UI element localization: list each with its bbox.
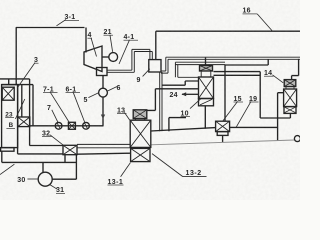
tower 13 body <box>130 120 151 147</box>
tower 13 neck <box>135 119 144 121</box>
wire turbine down pipe <box>102 76 104 89</box>
wire line y88.8 to tower 12 <box>155 88 198 90</box>
wire riser to pipe A <box>267 59 269 65</box>
wire 16 line vertical into box 9 <box>155 31 157 59</box>
circle 22 <box>294 136 300 142</box>
wire condensate down pipe <box>102 97 104 126</box>
label line 30 <box>27 178 38 180</box>
heat exchanger 32 <box>63 145 77 154</box>
wire tower 14 side pipe <box>278 93 284 141</box>
tower 14 body <box>284 89 297 107</box>
wire exhaust double pipe riser <box>132 49 134 72</box>
wire tower 12 down pipe <box>204 106 206 129</box>
wire B2 pipe <box>214 74 261 76</box>
wire top loop left vertical <box>15 27 17 84</box>
heat exchanger 9 <box>149 60 161 72</box>
vessel 3 top line extension <box>2 84 33 86</box>
pointer for label 1 at edge <box>0 164 14 174</box>
pointer 13-1 <box>121 163 131 177</box>
heat exchanger 15 base <box>217 132 228 136</box>
circle 6 <box>99 88 108 97</box>
tower 14 neck <box>286 87 294 89</box>
pointer 3-1 <box>57 20 67 26</box>
wire generator shaft <box>102 56 109 58</box>
pointer 21 <box>110 35 113 52</box>
pointer 10 <box>190 99 201 109</box>
vessel 3 inner packing <box>2 87 14 100</box>
tower 13 lower section <box>131 148 150 161</box>
pointer 6 <box>107 87 117 92</box>
wire box 15 top riser <box>224 64 226 121</box>
wire pipe A long double line <box>166 57 300 59</box>
turbine 4 exhaust hood <box>97 68 108 76</box>
wire y127 line <box>230 126 278 128</box>
wire exhaust double pipe top run <box>132 49 152 51</box>
pointer 16 <box>257 14 272 31</box>
wire L2 line right of box 32 <box>77 153 131 154</box>
pump 31 <box>38 172 52 186</box>
wire vessel top inlet stub <box>8 79 10 85</box>
turbine 4 <box>84 46 102 72</box>
pointer 15 <box>223 101 238 121</box>
wire B1 pipe tower 12 to tower 14 bottom <box>214 72 291 118</box>
wire line to tower 13 bottom <box>64 155 66 163</box>
tower 14 cap <box>284 80 296 87</box>
pointer 5 <box>88 93 98 98</box>
wire left edge drop <box>1 151 3 162</box>
wire D2 branch down <box>175 62 198 77</box>
valve 7-1 <box>68 122 75 129</box>
pointer 3 <box>17 63 35 88</box>
wire L2 line left of box 32 <box>18 153 63 155</box>
pointer 19 <box>236 101 251 127</box>
wire tower 14 top pipe <box>292 59 299 80</box>
wire 16 long top line <box>156 30 300 32</box>
wire top loop horizontal 3-1 <box>16 27 85 29</box>
pointer 7-1 <box>50 92 69 123</box>
arrow 24 <box>182 93 199 95</box>
tower 12 neck <box>201 71 211 77</box>
valve 6-1 <box>83 122 90 129</box>
wire L1 elbow riser <box>29 79 31 146</box>
wire pipe into box 8 top <box>21 85 23 117</box>
generator 21 <box>109 53 118 62</box>
tower 12 body <box>199 77 214 99</box>
pointer 32 <box>50 135 65 146</box>
wire box 15 bottom stub <box>222 135 224 142</box>
pointer 4-1 <box>119 40 130 64</box>
tower 12 bottom section <box>199 99 214 106</box>
pointer 14 <box>272 75 283 83</box>
wire feed line left edge <box>0 78 30 80</box>
wire stair pipe to tower 12 <box>162 81 199 85</box>
wire L1 line left of box 32 <box>30 145 63 147</box>
vessel 3 foot <box>1 148 14 152</box>
wire stub pipe y117 <box>169 118 186 132</box>
tower 12 cap <box>200 66 213 72</box>
wire L1 line right of box 32 <box>77 144 130 147</box>
wire bottom left long line <box>2 161 77 163</box>
wire vessel right wall to L2 <box>17 85 19 154</box>
pointer 9 <box>143 69 150 77</box>
pointer 4 <box>91 38 97 57</box>
wire drop to pump <box>42 162 44 172</box>
pointer 13-2 <box>152 154 207 177</box>
wire pipe A elbow double <box>161 57 168 73</box>
pointer 7 <box>52 110 58 123</box>
flow arrow on down pipe <box>101 115 105 120</box>
wire exhaust double pipe drop to box 9 <box>150 49 152 59</box>
wire D2 double pipe <box>175 62 225 64</box>
wire y66 line <box>225 64 268 66</box>
wire box 9 double down pipe <box>160 72 162 131</box>
wire line tower 13 to box 15 <box>151 128 216 131</box>
wire tower 12 top pipe <box>205 58 207 66</box>
pointer inside vessel <box>15 99 24 119</box>
heat exchanger 8 <box>18 117 30 127</box>
wire valve line <box>30 125 104 127</box>
heat exchanger 15 <box>216 121 230 131</box>
wire pipe to valve line <box>32 85 34 126</box>
wire pump outlet riser <box>52 155 76 180</box>
pointer 6-1 <box>73 92 85 122</box>
vessel 3 shell <box>2 85 18 148</box>
valve 7 <box>55 122 62 129</box>
pointer 31 <box>50 185 57 190</box>
wire exhaust double pipe horizontal <box>107 70 134 72</box>
pointer 13 <box>124 112 130 121</box>
wire long bottom right line <box>151 140 295 145</box>
tower 14 bottom section <box>284 107 296 114</box>
wire steam inlet to turbine <box>85 28 87 53</box>
wire tower 13 top pipe <box>147 89 156 111</box>
tower 13 cap <box>133 110 147 119</box>
